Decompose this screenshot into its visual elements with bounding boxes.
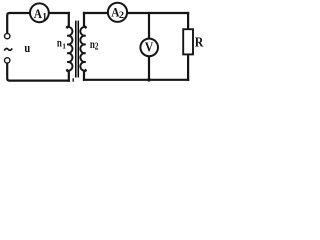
wire: voltmeter branch top (148, 13, 150, 39)
svg-text:2: 2 (95, 41, 99, 52)
wire: secondary top to A2 and right edge (84, 12, 188, 14)
terminal: lower input (5, 58, 10, 63)
svg-text:1: 1 (62, 41, 66, 50)
core: transformer iron core lines (76, 21, 79, 78)
wire: top-left horizontal from source to transformer primary (7, 13, 69, 33)
coil n2 secondary winding turns (80, 27, 85, 71)
resistor R (183, 29, 204, 54)
terminal: upper input (5, 33, 10, 38)
svg-text:u: u (24, 40, 30, 55)
wire: bottom-left from source down and right to primary bottom (7, 63, 69, 80)
wire: resistor bottom down to bottom wire (187, 54, 189, 79)
wire: secondary connector top (84, 13, 86, 27)
wire: primary connector bottom (67, 70, 69, 80)
label: ~ AC symbol (4, 48, 12, 50)
wire: right branch down to resistor R (187, 13, 189, 29)
svg-text:V: V (145, 41, 153, 56)
stray mark near bottom between loops (73, 78, 74, 81)
coil n1 primary winding turns (67, 27, 72, 71)
ammeter A1 (30, 3, 49, 22)
junction dot at V branch bottom (147, 78, 151, 82)
wire: primary connector top (67, 13, 69, 27)
wire: secondary connector bottom (84, 70, 86, 80)
svg-text:2: 2 (119, 11, 124, 21)
ammeter A2 (108, 3, 127, 22)
voltmeter V (140, 39, 158, 57)
wire: voltmeter branch bottom (148, 56, 150, 80)
svg-text:1: 1 (42, 13, 47, 23)
wire: secondary bottom from coil to R branch (84, 79, 188, 81)
svg-text:R: R (195, 35, 204, 50)
